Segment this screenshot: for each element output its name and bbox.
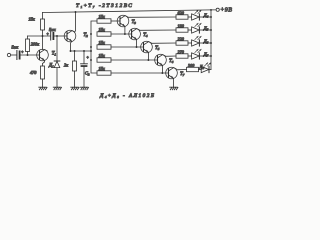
resistor R4 2к: [74, 51, 76, 61]
wire C1 to T1 base: [21, 54, 39, 56]
wire T6 collector to row: [165, 55, 176, 57]
svg-text:Д5: Д5: [203, 26, 209, 32]
diode D1: [54, 60, 60, 62]
svg-text:270: 270: [178, 49, 185, 54]
svg-text:+: +: [21, 49, 24, 54]
svg-text:15к: 15к: [99, 40, 106, 45]
LED D8: [201, 66, 209, 72]
svg-text:Т1÷Т7 -2Т312ВС: Т1÷Т7 -2Т312ВС: [76, 3, 133, 9]
resistor R10 620: [176, 15, 188, 19]
svg-text:200к: 200к: [31, 42, 40, 47]
wire base T5: [111, 46, 144, 48]
resistor R7 15к: [97, 45, 111, 49]
wire right rail vertical: [210, 10, 212, 70]
svg-text:220: 220: [178, 36, 185, 41]
LED D4: [192, 14, 200, 20]
transistor T5: [141, 41, 153, 53]
svg-text:Т3: Т3: [132, 20, 137, 25]
svg-text:Д1: Д1: [48, 63, 54, 68]
wire base T3: [111, 20, 120, 22]
node T2 base / D1: [56, 35, 58, 37]
svg-text:15к: 15к: [29, 16, 36, 21]
wire row 3 to LED: [188, 42, 192, 44]
svg-text:2к: 2к: [64, 62, 69, 67]
svg-text:15к: 15к: [99, 14, 106, 19]
ground T7 emitter: [170, 87, 178, 90]
LED D5: [192, 27, 200, 33]
node right rail top: [210, 9, 212, 11]
ground C2: [80, 87, 88, 90]
wire T5 emitter to T6 base: [147, 52, 149, 60]
wire base T7: [111, 72, 169, 74]
wire row 1 to LED: [188, 16, 192, 18]
node C2 top: [83, 50, 85, 52]
node T2 collector on rail: [75, 11, 77, 13]
resistor R11 180: [176, 28, 188, 32]
resistor R2 15к: [41, 19, 45, 30]
transistor T7: [166, 67, 178, 79]
transistor T3: [117, 15, 129, 27]
wire LED to rail: [200, 16, 211, 18]
svg-text:Т2: Т2: [84, 33, 89, 38]
wire LED to rail: [200, 42, 211, 44]
svg-text:470: 470: [30, 70, 37, 75]
wire T4 emitter to T5 base: [136, 39, 138, 47]
svg-text:15к: 15к: [99, 27, 106, 32]
wire T7 collector to row: [176, 69, 186, 71]
svg-text:5мк: 5мк: [49, 27, 56, 32]
resistor R9 15к: [97, 71, 111, 75]
wire base T6: [111, 59, 158, 61]
resistor R6 15к: [97, 32, 111, 36]
node rail row 2: [210, 29, 212, 31]
wire LED to rail: [200, 55, 211, 57]
input terminal: [7, 53, 10, 56]
node emitter T2: [70, 50, 72, 52]
ground D1: [53, 87, 61, 90]
transistor T4: [129, 28, 141, 40]
wire C3 to T2 base: [55, 35, 68, 37]
LED D6: [192, 40, 200, 46]
wire T5 collector to row: [151, 42, 176, 44]
ground R3: [39, 87, 47, 90]
wire T3 emitter to T4 base: [124, 26, 126, 34]
node bus row3: [90, 46, 92, 48]
wire R3 to ground: [42, 79, 44, 87]
wire row 2 to LED: [188, 29, 192, 31]
wire row 4 to LED: [188, 55, 192, 57]
wire T1 emitter: [43, 61, 45, 63]
wire C2 to ground: [83, 67, 85, 87]
wire input to C1: [11, 54, 17, 56]
svg-text:Т4: Т4: [143, 33, 148, 38]
wire T6 emitter to T7 base: [161, 65, 163, 73]
capacitor C2 electrolytic: [83, 51, 85, 64]
wire T7 emitter to ground: [172, 78, 174, 87]
transistor T6: [155, 54, 167, 66]
wire row 5 to LED: [199, 69, 202, 71]
resistor R14 300: [187, 67, 199, 71]
svg-text:620: 620: [178, 10, 185, 15]
node collector T1: [42, 35, 44, 37]
svg-text:Т1: Т1: [52, 52, 57, 57]
svg-text:300: 300: [188, 63, 195, 68]
svg-text:Д4÷Д8 - АЛ102Б: Д4÷Д8 - АЛ102Б: [99, 93, 155, 99]
svg-text:Д7: Д7: [203, 52, 209, 58]
svg-text:Д4: Д4: [203, 13, 209, 19]
resistor R3 470: [41, 66, 45, 79]
wire R4 to ground: [74, 71, 76, 87]
svg-text:5мк: 5мк: [12, 45, 19, 50]
ground R4: [71, 87, 79, 90]
wire LED to rail: [210, 69, 211, 71]
svg-text:+9В: +9В: [220, 7, 232, 13]
resistor R1 200к: [26, 39, 30, 52]
svg-text:15к: 15к: [99, 66, 106, 71]
LED D7: [192, 53, 200, 59]
wire emitter node line: [71, 50, 92, 52]
wire D1 top: [56, 36, 58, 61]
wire LED to rail: [200, 29, 211, 31]
wire collector node to C3: [28, 35, 51, 37]
node bus row4: [90, 59, 92, 61]
svg-text:Д6: Д6: [203, 39, 209, 45]
wire T4 collector to row: [139, 29, 176, 31]
wire T2 collector to rail: [74, 12, 77, 32]
svg-text:С2: С2: [85, 71, 90, 77]
terminal +9V: [216, 8, 219, 11]
capacitor C1 5mk electrolytic: [16, 51, 18, 60]
resistor R8 15к: [97, 58, 111, 62]
node bus / emitter line: [90, 50, 92, 52]
wire T3 collector to row: [128, 16, 176, 18]
node base T1 / R1: [27, 54, 29, 56]
node rail row 1: [210, 16, 212, 18]
node rail row 3: [210, 42, 212, 44]
transistor T2: [64, 30, 76, 42]
wire bias bus vertical: [91, 21, 97, 73]
resistor R5 15к: [97, 19, 111, 23]
svg-text:+: +: [86, 54, 89, 59]
svg-text:Т6: Т6: [169, 59, 174, 64]
wire T2 emitter to node line: [71, 41, 72, 51]
svg-text:180: 180: [178, 23, 185, 28]
resistor R12 220: [176, 41, 188, 45]
node R4 top: [74, 50, 76, 52]
svg-text:15к: 15к: [99, 53, 106, 58]
node rail row 4: [210, 55, 212, 57]
wire D1 to ground: [56, 68, 58, 88]
transistor T1: [37, 49, 49, 61]
node bus row2: [90, 33, 92, 35]
resistor R13 270: [176, 54, 188, 58]
svg-text:Т5: Т5: [155, 46, 160, 51]
wire top +9V rail: [43, 10, 217, 13]
svg-text:Т7: Т7: [180, 72, 185, 77]
wire base T4: [111, 33, 132, 35]
